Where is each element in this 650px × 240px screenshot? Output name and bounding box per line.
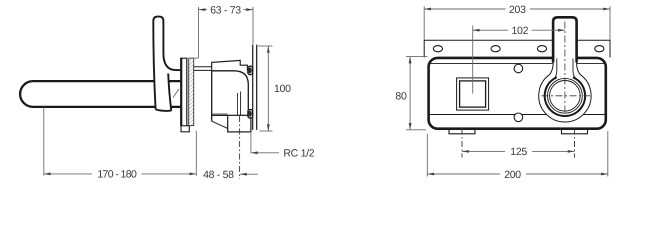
foot left: [449, 129, 475, 134]
rail bottom seam: [429, 62, 605, 64]
dimension 200: [427, 131, 608, 177]
port centerline dashed: [239, 116, 241, 179]
dimension 203: [424, 6, 610, 40]
wall lug top: [248, 66, 253, 74]
centerline vertical: [564, 22, 566, 120]
foot right: [562, 129, 588, 134]
valve outlet pipe line: [240, 92, 242, 116]
dimension 125: [461, 129, 463, 158]
handle mask patch: [155, 77, 171, 110]
mounting rail: [424, 40, 610, 57]
valve body: [212, 71, 249, 121]
wall: [253, 45, 257, 130]
dimension 48 - 58: [240, 173, 258, 175]
rail oval hole 2: [491, 46, 500, 52]
inlet port RC 1/2: [228, 115, 251, 132]
spout: [20, 81, 171, 107]
handle bottom cap: [156, 110, 172, 111]
dimension 170 - 180: [44, 107, 197, 176]
valve body inner line: [212, 113, 228, 115]
rail oval hole 3: [537, 46, 546, 52]
spout seam diagonal: [173, 89, 179, 98]
small circle bottom: [514, 113, 523, 122]
wall lug bottom: [248, 110, 253, 118]
box inner bottom line: [430, 114, 605, 116]
valve cap: [212, 60, 248, 70]
svg-text:100: 100: [274, 83, 291, 95]
svg-text:203: 203: [509, 4, 526, 16]
valve body circle heavy: [545, 77, 585, 116]
svg-text:170 - 180: 170 - 180: [97, 169, 137, 181]
ring 3: [550, 81, 581, 112]
svg-text:80: 80: [395, 91, 407, 103]
handle stem heavy outline: [553, 17, 577, 62]
dimension 80: [406, 57, 428, 130]
svg-text:RC 1/2: RC 1/2: [283, 148, 314, 160]
rail oval hole 1: [433, 46, 442, 52]
spout body top/bottom to escutcheon: [168, 81, 181, 107]
valve trim outer keyhole: [539, 17, 591, 122]
escutcheon front bar: [181, 58, 187, 126]
small circle top: [514, 64, 523, 73]
rail oval hole 4: [595, 46, 604, 52]
svg-text:102: 102: [511, 25, 528, 37]
dimension 100: [258, 46, 273, 131]
svg-text:48 - 58: 48 - 58: [203, 169, 234, 181]
handle lever: [153, 17, 181, 110]
dimension 102: [472, 26, 474, 94]
ring 2: [548, 78, 583, 113]
escutcheon front face thick line: [180, 58, 182, 126]
label RC 1/2: [250, 133, 252, 153]
centerline horizontal: [542, 95, 591, 97]
wall box heavy outline: [429, 58, 606, 129]
handle lower edge: [168, 74, 171, 111]
square opening outer: [457, 78, 489, 110]
supply wedge: [212, 121, 228, 128]
svg-text:200: 200: [504, 169, 521, 181]
escutcheon foot: [181, 126, 189, 132]
escutcheon hatched flange: [189, 58, 194, 125]
svg-text:125: 125: [510, 146, 527, 158]
stem bore lines: [553, 59, 576, 80]
cartridge stem lines: [194, 67, 212, 71]
dimension 63 - 73: [199, 7, 254, 58]
square opening inner: [460, 81, 486, 107]
svg-text:63 - 73: 63 - 73: [210, 4, 241, 16]
box white fill: [429, 58, 606, 129]
